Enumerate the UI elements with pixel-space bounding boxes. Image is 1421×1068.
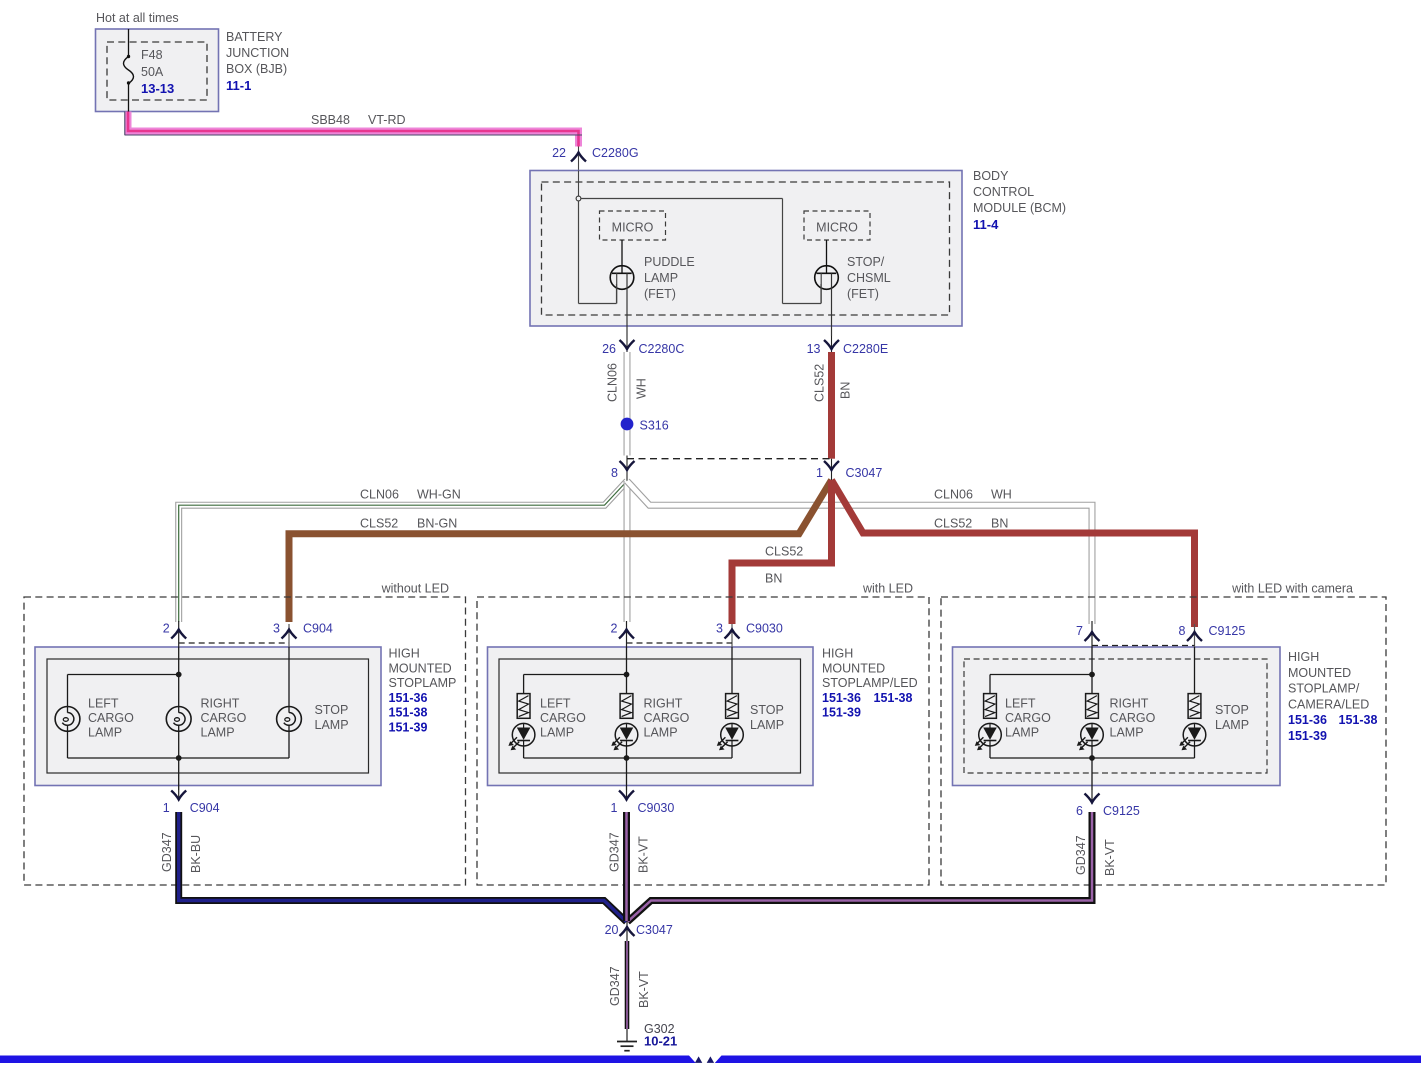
svg-text:10-21: 10-21 (644, 1034, 677, 1049)
svg-text:GD347: GD347 (1074, 835, 1088, 875)
svg-text:WH-GN: WH-GN (417, 488, 461, 502)
high mounted stoplamp (without LED) lamp labels (88, 697, 349, 740)
label GD347 BK-VT (vertical, ground leg) (608, 966, 651, 1008)
svg-text:HIGH: HIGH (389, 647, 420, 661)
svg-text:BN-GN: BN-GN (417, 517, 457, 531)
LED right cargo lamp (611, 723, 638, 750)
fuse labels F48 50A 13-13 (141, 48, 174, 96)
high mounted stoplamp (without LED) side label (389, 647, 457, 735)
svg-text:C3047: C3047 (636, 923, 673, 937)
svg-text:SBB48: SBB48 (311, 113, 350, 127)
label GD347 BK-VT (vertical, A3) (1074, 835, 1117, 876)
svg-text:BODY: BODY (973, 169, 1009, 183)
svg-text:MOUNTED: MOUNTED (389, 661, 452, 675)
connector C2280C pin 26 (602, 336, 684, 356)
battery junction box (BJB) outline (96, 29, 219, 112)
wire GD347 BK-VT (to ground) (625, 941, 630, 1029)
label SBB48 VT-RD (311, 113, 406, 127)
svg-text:(FET): (FET) (847, 287, 879, 301)
svg-text:LEFT: LEFT (540, 697, 571, 711)
svg-text:BK-VT: BK-VT (637, 971, 651, 1008)
ground G302 (617, 1022, 677, 1051)
svg-text:LAMP: LAMP (644, 726, 678, 740)
splice S316 (621, 418, 669, 433)
svg-text:151-36: 151-36 (389, 691, 428, 705)
bulb stop lamp (277, 707, 302, 732)
svg-text:LEFT: LEFT (1005, 697, 1036, 711)
svg-text:CARGO: CARGO (88, 711, 134, 725)
svg-text:2: 2 (611, 622, 618, 636)
connector C2280G pin 22 (552, 146, 638, 171)
resistor (stop lamp) (1188, 694, 1201, 719)
wire CLS52 BN-GN (to C904 pin 3) (289, 480, 832, 622)
svg-text:MOUNTED: MOUNTED (822, 661, 885, 675)
svg-text:LAMP: LAMP (750, 718, 784, 732)
svg-text:MODULE (BCM): MODULE (BCM) (973, 201, 1066, 215)
svg-text:C9125: C9125 (1103, 804, 1140, 818)
svg-text:CARGO: CARGO (540, 711, 586, 725)
svg-text:151-38: 151-38 (1339, 713, 1378, 727)
connector C9030 pin 2 (611, 621, 634, 647)
svg-text:13: 13 (807, 342, 821, 356)
svg-text:3: 3 (273, 622, 280, 636)
svg-text:Hot at all times: Hot at all times (96, 11, 179, 25)
svg-text:LAMP: LAMP (540, 726, 574, 740)
label CLN06 WH-GN (360, 488, 461, 502)
svg-text:CLN06: CLN06 (606, 363, 620, 402)
svg-text:LAMP: LAMP (1215, 718, 1249, 732)
high mounted stoplamp/LED (with LED) lamp module box (488, 647, 814, 786)
svg-text:BK-VT: BK-VT (637, 836, 651, 873)
svg-text:JUNCTION: JUNCTION (226, 46, 289, 60)
svg-text:C3047: C3047 (846, 466, 883, 480)
svg-text:HIGH: HIGH (1288, 650, 1319, 664)
svg-text:13-13: 13-13 (141, 81, 174, 96)
connector C9030 pin 1 (bottom) (611, 790, 675, 815)
svg-text:GD347: GD347 (160, 832, 174, 872)
svg-text:PUDDLE: PUDDLE (644, 255, 695, 269)
svg-text:without LED: without LED (381, 582, 449, 596)
wire CLN06 WH (to C9125 pin 7) (627, 481, 1092, 624)
svg-text:151-39: 151-39 (389, 721, 428, 735)
svg-text:with LED with camera: with LED with camera (1231, 582, 1353, 596)
svg-text:26: 26 (602, 342, 616, 356)
svg-text:151-38: 151-38 (874, 691, 913, 705)
label STOP/ CHSML (FET) (847, 255, 891, 301)
resistor (right cargo lamp) (1086, 694, 1099, 719)
footer bar with W logo (0, 1056, 1421, 1064)
high mounted stoplamp/LED (with LED) dashed enclosure (477, 582, 929, 886)
label CLS52 BN (right) (934, 517, 1008, 531)
svg-text:151-39: 151-39 (1288, 729, 1327, 743)
connector C904 pin 1 (bottom) (163, 790, 220, 815)
resistor (stop lamp) (726, 694, 739, 719)
harness boundary dashed line (627, 458, 832, 460)
svg-text:1: 1 (816, 466, 823, 480)
high mounted stoplamp/LED (with LED) internal wiring (524, 647, 732, 790)
svg-text:CLS52: CLS52 (765, 545, 803, 559)
svg-text:BOX (BJB): BOX (BJB) (226, 62, 287, 76)
svg-text:1: 1 (611, 801, 618, 815)
fuse F48 50A (124, 29, 134, 112)
svg-text:LAMP: LAMP (1005, 726, 1039, 740)
high mounted stoplamp/LED (with LED) side label (822, 647, 918, 720)
svg-text:C2280G: C2280G (592, 146, 639, 160)
svg-text:3: 3 (716, 622, 723, 636)
svg-text:CLS52: CLS52 (360, 517, 398, 531)
LED left cargo lamp (508, 723, 534, 750)
svg-text:STOPLAMP: STOPLAMP (389, 676, 457, 690)
svg-text:151-38: 151-38 (389, 706, 428, 720)
label CLN06 WH (right) (934, 488, 1012, 502)
svg-text:LAMP: LAMP (315, 718, 349, 732)
svg-text:22: 22 (552, 146, 566, 160)
high mounted stoplamp (without LED) internal wiring (68, 647, 290, 790)
svg-text:BN: BN (765, 572, 782, 586)
node (junction) inside BCM (576, 196, 581, 201)
wire GD347 BK-VT (from C9125 pin 6) (628, 812, 1093, 922)
svg-text:MOUNTED: MOUNTED (1288, 666, 1351, 680)
connector C9030 pin 3 (716, 622, 783, 648)
wire CLS52 BN (BCM down) (828, 352, 835, 459)
svg-text:C9030: C9030 (638, 801, 675, 815)
svg-text:RIGHT: RIGHT (1110, 697, 1149, 711)
svg-text:CARGO: CARGO (201, 711, 247, 725)
svg-text:50A: 50A (141, 65, 164, 79)
svg-text:BN: BN (839, 382, 853, 399)
svg-text:C904: C904 (190, 801, 220, 815)
wire CLN06 WH-GN (to C904 pin 2) (179, 481, 627, 622)
wire SBB48 VT-RD (125, 112, 583, 147)
resistor (left cargo lamp) (517, 694, 530, 719)
svg-text:151-36: 151-36 (822, 691, 861, 705)
svg-text:HIGH: HIGH (822, 647, 853, 661)
wire GD347 BK-VT (from C9030 pin 1) (623, 812, 630, 921)
resistor (right cargo lamp) (620, 694, 633, 719)
svg-text:1: 1 (163, 801, 170, 815)
svg-text:STOP: STOP (315, 703, 349, 717)
LED stop lamp (1179, 723, 1205, 750)
svg-text:MICRO: MICRO (816, 221, 858, 235)
svg-text:LAMP: LAMP (644, 271, 678, 285)
LED stop lamp (717, 723, 744, 750)
svg-text:F48: F48 (141, 48, 163, 62)
label CLS52 BN-GN (360, 517, 457, 531)
svg-text:11-1: 11-1 (226, 78, 251, 93)
svg-text:151-36: 151-36 (1288, 713, 1327, 727)
svg-text:8: 8 (1179, 624, 1186, 638)
micro box (left) (600, 211, 666, 240)
bulb left cargo lamp (55, 707, 80, 732)
connector C3047 pin 20 (605, 921, 673, 941)
label PUDDLE LAMP (FET) (644, 255, 695, 301)
wire node to stop FET (581, 199, 821, 304)
connector C904 pin 2 (163, 621, 186, 647)
svg-text:WH: WH (635, 378, 649, 399)
body control module (BCM) outline (530, 171, 962, 327)
resistor (left cargo lamp) (984, 694, 997, 719)
svg-text:STOPLAMP/: STOPLAMP/ (1288, 682, 1360, 696)
svg-text:C2280C: C2280C (639, 342, 685, 356)
LED left cargo lamp (975, 723, 1002, 750)
svg-text:LAMP: LAMP (1110, 726, 1144, 740)
micro box (right) (804, 211, 870, 240)
connector C9030 dashed line (627, 642, 733, 644)
svg-text:BN: BN (991, 517, 1008, 531)
svg-text:CARGO: CARGO (1110, 711, 1156, 725)
high mounted stoplamp/camera/LED (with LED with camera) dashed enclosure (941, 582, 1386, 886)
high mounted stoplamp (without LED) dashed enclosure (24, 582, 466, 886)
svg-text:STOP: STOP (750, 703, 784, 717)
svg-text:GD347: GD347 (608, 966, 622, 1006)
svg-text:MICRO: MICRO (612, 221, 654, 235)
label CLS52 BN (center) (765, 545, 803, 586)
connector C2280E pin 13 (807, 336, 889, 356)
connector C3047 pin 1 (816, 459, 882, 481)
BCM internal wire from pin 22 (578, 171, 580, 197)
wire CLS52 BN (to C9030 pin 3) (732, 480, 832, 624)
connector C9125 pin 7 (1076, 621, 1099, 647)
svg-text:CARGO: CARGO (644, 711, 690, 725)
label CLN06 WH (vertical) (606, 363, 649, 402)
svg-text:RIGHT: RIGHT (644, 697, 683, 711)
high mounted stoplamp/camera/LED (with LED with camera) lamp labels (1005, 697, 1249, 740)
label CLS52 BN (vertical) (813, 364, 853, 402)
label BODY CONTROL MODULE (BCM) 11-4 (973, 169, 1066, 232)
LED right cargo lamp (1077, 723, 1103, 750)
svg-text:STOPLAMP/LED: STOPLAMP/LED (822, 676, 918, 690)
svg-text:7: 7 (1076, 624, 1083, 638)
bulb right cargo lamp (166, 707, 191, 732)
svg-text:BK-BU: BK-BU (189, 835, 203, 873)
high mounted stoplamp/LED (with LED) lamp labels (540, 697, 784, 740)
connector C9125 dashed line (1092, 645, 1195, 647)
label BATTERY JUNCTION BOX (BJB) 11-1 (226, 30, 289, 93)
svg-text:20: 20 (605, 923, 619, 937)
wire GD347 BK-BU (from C904 pin 1) (179, 812, 627, 922)
svg-text:CHSML: CHSML (847, 271, 891, 285)
svg-text:STOP: STOP (1215, 703, 1249, 717)
svg-text:2: 2 (163, 622, 170, 636)
connector C9125 pin 8 (1179, 624, 1246, 647)
svg-text:S316: S316 (640, 419, 669, 433)
svg-text:CONTROL: CONTROL (973, 185, 1034, 199)
label Hot at all times (96, 11, 179, 25)
svg-text:LAMP: LAMP (88, 726, 122, 740)
high mounted stoplamp (without LED) lamp module box (35, 647, 381, 786)
high mounted stoplamp/camera/LED (with LED with camera) lamp module box (953, 647, 1281, 786)
svg-text:LAMP: LAMP (201, 726, 235, 740)
connector C904 pin 3 (273, 622, 333, 648)
svg-text:C904: C904 (303, 622, 333, 636)
svg-text:VT-RD: VT-RD (368, 113, 406, 127)
puddle lamp FET (transistor) (610, 240, 634, 336)
connector C3047 pin 8 (611, 456, 634, 482)
svg-text:151-39: 151-39 (822, 706, 861, 720)
svg-text:with LED: with LED (862, 582, 913, 596)
svg-text:LEFT: LEFT (88, 697, 119, 711)
svg-text:CLS52: CLS52 (813, 364, 827, 402)
svg-text:CAMERA/LED: CAMERA/LED (1288, 697, 1369, 711)
svg-text:8: 8 (611, 466, 618, 480)
svg-text:(FET): (FET) (644, 287, 676, 301)
stop/CHSML FET (transistor) (815, 240, 839, 336)
svg-text:RIGHT: RIGHT (201, 697, 240, 711)
svg-text:6: 6 (1076, 804, 1083, 818)
connector C9125 pin 6 (bottom) (1076, 790, 1140, 818)
svg-text:STOP/: STOP/ (847, 255, 885, 269)
svg-text:WH: WH (991, 488, 1012, 502)
high mounted stoplamp/camera/LED (with LED with camera) internal wiring (990, 647, 1195, 790)
svg-text:C9030: C9030 (746, 622, 783, 636)
svg-text:BATTERY: BATTERY (226, 30, 283, 44)
label GD347 BK-BU (vertical, A1) (160, 832, 203, 873)
wire node to puddle FET (579, 201, 617, 304)
svg-text:CARGO: CARGO (1005, 711, 1051, 725)
svg-text:CLS52: CLS52 (934, 517, 972, 531)
svg-text:CLN06: CLN06 (934, 488, 973, 502)
svg-text:11-4: 11-4 (973, 217, 999, 232)
svg-text:C2280E: C2280E (843, 342, 888, 356)
svg-text:GD347: GD347 (608, 832, 622, 872)
svg-text:CLN06: CLN06 (360, 488, 399, 502)
wire CLN06 WH (BCM to splice) (624, 352, 631, 456)
wire CLN06 WH (to C9030 pin 2) (624, 481, 631, 622)
svg-text:C9125: C9125 (1209, 624, 1246, 638)
label GD347 BK-VT (vertical, A2) (608, 832, 651, 873)
connector C904 dashed line (179, 642, 289, 644)
svg-text:BK-VT: BK-VT (1103, 839, 1117, 876)
wire CLS52 BN (to C9125 pin 8) (832, 480, 1195, 627)
high mounted stoplamp/camera/LED (with LED with camera) side label (1288, 650, 1377, 743)
